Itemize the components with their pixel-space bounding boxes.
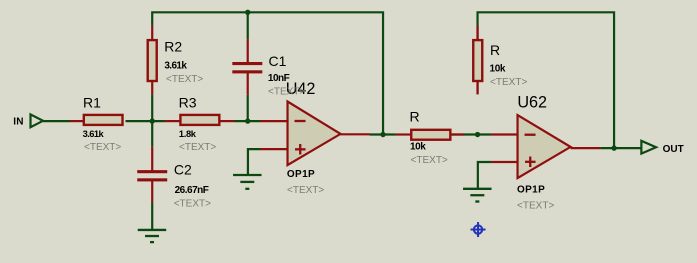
svg-text:1.8k: 1.8k — [179, 129, 197, 139]
svg-text:OP1P: OP1P — [517, 185, 545, 196]
svg-text:<TEXT>: <TEXT> — [268, 87, 305, 98]
svg-text:C1: C1 — [269, 53, 287, 69]
svg-text:C2: C2 — [174, 161, 192, 177]
svg-text:<TEXT>: <TEXT> — [517, 200, 554, 211]
svg-text:10k: 10k — [490, 64, 506, 75]
svg-text:OP1P: OP1P — [287, 169, 315, 180]
svg-text:10k: 10k — [410, 142, 426, 153]
svg-text:R: R — [490, 42, 500, 58]
svg-text:<TEXT>: <TEXT> — [84, 142, 121, 153]
svg-text:<TEXT>: <TEXT> — [166, 74, 203, 85]
svg-text:R2: R2 — [164, 39, 182, 55]
svg-text:<TEXT>: <TEXT> — [179, 142, 216, 153]
svg-text:IN: IN — [13, 117, 24, 128]
svg-text:<TEXT>: <TEXT> — [174, 199, 211, 210]
svg-text:<TEXT>: <TEXT> — [411, 155, 448, 166]
svg-text:R: R — [410, 108, 420, 124]
svg-text:26.67nF: 26.67nF — [175, 185, 209, 196]
svg-text:<TEXT>: <TEXT> — [490, 77, 527, 88]
svg-text:U62: U62 — [517, 94, 547, 112]
svg-text:R1: R1 — [83, 95, 101, 111]
svg-text:3.61k: 3.61k — [164, 61, 187, 72]
svg-text:R3: R3 — [179, 95, 197, 111]
svg-text:3.61k: 3.61k — [83, 129, 105, 139]
svg-text:<TEXT>: <TEXT> — [287, 185, 324, 196]
svg-text:OUT: OUT — [663, 144, 684, 155]
